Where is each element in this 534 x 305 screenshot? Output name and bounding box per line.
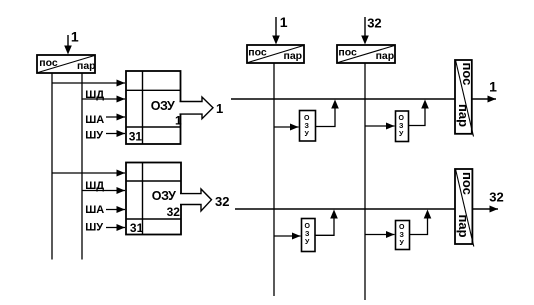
RAM U6 (small ОЗУ, upper-left): [300, 111, 316, 142]
converter U5 (пос/пар, middle-right): [337, 45, 395, 63]
wire rail B (right vertical from U1): [81, 73, 83, 260]
svg-text:З: З: [399, 123, 404, 130]
svg-text:ШУ: ШУ: [85, 221, 103, 233]
svg-text:пар: пар: [77, 60, 96, 72]
svg-text:У: У: [305, 239, 310, 246]
wire rail C to U6: [274, 126, 299, 128]
RAM U8 (small ОЗУ, lower-left): [302, 219, 316, 252]
wire U8 to bus 32: [315, 218, 334, 235]
svg-text:пос: пос: [248, 47, 267, 59]
svg-text:32: 32: [489, 190, 503, 205]
svg-text:1: 1: [71, 28, 79, 44]
svg-text:О: О: [304, 115, 310, 122]
RAM U2 (ОЗУ 1, upper big block): [126, 71, 182, 144]
svg-text:ОЗУ: ОЗУ: [151, 99, 175, 113]
bus wire 32 (lower horizontal bus): [235, 208, 455, 210]
input arrow 32 (middle converter U5): [361, 17, 369, 45]
converter U11 (пос/пар parallel-to-serial, lower-right vertical): [455, 169, 475, 247]
wire ШД to RAM U2: [82, 98, 125, 100]
svg-text:ША: ША: [85, 114, 104, 126]
output bus arrow (hollow) from U2: [180, 97, 214, 119]
bus wire 1 (upper horizontal bus): [231, 98, 455, 100]
svg-text:О: О: [399, 115, 405, 122]
svg-text:З: З: [305, 231, 310, 238]
svg-text:32: 32: [215, 194, 229, 209]
RAM U7 (small ОЗУ, upper-right): [396, 111, 409, 142]
svg-text:пос: пос: [460, 172, 475, 195]
svg-text:1: 1: [175, 113, 182, 127]
wire rail C to U8: [274, 235, 301, 237]
wire U6 to bus 1: [316, 108, 336, 127]
svg-text:пар: пар: [376, 50, 395, 62]
converter U1 (пос/пар serial-to-parallel, left): [37, 55, 96, 73]
wire rail D to U9: [365, 234, 395, 236]
wire ША to RAM U2: [106, 116, 125, 118]
input arrow 1 (top-left serial input): [64, 35, 72, 55]
svg-text:ШУ: ШУ: [85, 130, 103, 142]
wire U9 to bus 32: [410, 218, 428, 235]
svg-text:1: 1: [489, 78, 497, 94]
converter U10 (пос/пар parallel-to-serial, upper-right vertical): [455, 60, 475, 137]
svg-text:О: О: [399, 224, 405, 231]
svg-text:32: 32: [367, 16, 381, 31]
svg-text:31: 31: [129, 129, 143, 143]
svg-text:31: 31: [130, 221, 144, 235]
svg-text:пар: пар: [284, 50, 303, 62]
wire ШУ to RAM U2: [106, 133, 125, 135]
output bus arrow (hollow) from U3: [180, 189, 212, 211]
svg-text:З: З: [400, 232, 405, 239]
svg-text:пос: пос: [338, 47, 357, 59]
wire rail A to RAM U3 top row: [52, 172, 125, 174]
input arrow 1 (middle converter U4): [272, 17, 280, 45]
svg-text:У: У: [400, 240, 405, 247]
svg-text:пос: пос: [460, 63, 475, 86]
wire rail C (vertical from U4): [273, 63, 275, 296]
wire rail A (left vertical from U1): [51, 73, 53, 260]
wire rail A to RAM U2 top row: [52, 82, 125, 84]
RAM U9 (small ОЗУ, lower-right): [396, 221, 410, 250]
wire ШУ to RAM U3: [106, 227, 125, 229]
RAM U3 (ОЗУ 32, lower big block): [126, 163, 181, 236]
svg-text:1: 1: [216, 101, 223, 116]
svg-text:пар: пар: [456, 104, 471, 127]
wire ШД to RAM U3: [82, 190, 125, 192]
svg-text:З: З: [305, 123, 310, 130]
svg-text:ША: ША: [85, 204, 104, 216]
wire rail D to U7: [365, 125, 395, 127]
wire rail D (vertical from U5): [364, 63, 366, 300]
output arrow 32 (serial output, lower): [473, 208, 498, 210]
svg-text:1: 1: [280, 14, 288, 30]
svg-text:ОЗУ: ОЗУ: [152, 189, 176, 203]
svg-text:32: 32: [167, 205, 181, 219]
svg-text:У: У: [305, 131, 310, 138]
output arrow 1 (serial output, upper): [473, 98, 497, 100]
svg-text:У: У: [399, 131, 404, 138]
wire ША to RAM U3: [106, 209, 125, 211]
svg-text:О: О: [305, 223, 311, 230]
svg-text:пар: пар: [456, 215, 471, 238]
converter U4 (пос/пар, middle-left): [247, 45, 304, 63]
wire U7 to bus 1: [409, 108, 426, 126]
svg-text:пос: пос: [39, 57, 58, 69]
